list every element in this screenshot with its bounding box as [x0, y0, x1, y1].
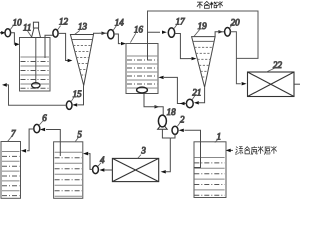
pump 14: [108, 30, 114, 39]
tank 5: [54, 142, 83, 199]
wire: pump 6 discharge to tank 7: [27, 129, 34, 151]
wire: cone 19 underflow to pump 21: [199, 87, 205, 103]
label 12: [58, 26, 61, 30]
pump 2: [172, 126, 178, 134]
svg-text:16: 16: [134, 25, 144, 35]
svg-text:20: 20: [231, 18, 241, 28]
label text 综合废水原水 (drawn strokes): [235, 146, 276, 155]
label 4: [98, 163, 101, 166]
svg-text:15: 15: [73, 89, 83, 99]
tank 1: [194, 142, 226, 198]
wire: tank 11 dip tube to pump 12: [45, 35, 53, 58]
wire: pump 15 discharge to left edge: [7, 85, 66, 105]
label text 不合格水 (drawn strokes): [197, 1, 223, 8]
svg-text:10: 10: [13, 17, 23, 27]
pump 18: [158, 115, 166, 127]
label 20: [230, 24, 233, 28]
tank 7 water level lines: [2, 152, 20, 196]
heat exchanger box 22: [248, 72, 295, 97]
tank 1 water level lines: [194, 158, 224, 196]
svg-text:7: 7: [11, 129, 16, 139]
pump 21: [186, 99, 193, 107]
label 21: [192, 96, 195, 100]
mixer motor on tank 11: [33, 22, 38, 28]
pump 20: [225, 28, 231, 37]
wire: inlet arrow into pump 10: [0, 32, 2, 34]
svg-text:4: 4: [100, 155, 105, 165]
cone 13 water surface: [72, 39, 93, 41]
label 2: [177, 121, 181, 126]
label 1: [215, 140, 218, 143]
pump 4: [93, 166, 99, 174]
cone 19 level dashes: [194, 47, 213, 77]
label 5: [75, 138, 78, 142]
wire: pump 12 to cone 13: [58, 33, 68, 60]
agitator shaft tank 11: [35, 38, 37, 84]
tank 11: [20, 38, 51, 92]
wire: box 22 outlet: [294, 83, 300, 85]
svg-text:2: 2: [180, 115, 185, 125]
cone clarifier 13: [70, 35, 93, 86]
svg-text:11: 11: [23, 23, 31, 33]
label 7: [8, 136, 12, 141]
wire: pump 14 to tank 16: [114, 34, 121, 44]
cone 13 level dashes: [73, 46, 91, 76]
impeller tank 16: [137, 87, 148, 93]
label 17: [174, 24, 177, 28]
label 18: [167, 114, 169, 116]
label 22: [266, 68, 275, 72]
svg-text:19: 19: [198, 21, 208, 31]
pump 10: [5, 29, 11, 37]
wire: pump 17 to cone 19: [175, 34, 188, 59]
wire: pump 10 to tank 11: [11, 33, 16, 45]
tank 11 water level lines: [21, 57, 50, 88]
wire: pump 18 discharge down: [162, 129, 170, 138]
label 14: [113, 26, 116, 30]
svg-text:6: 6: [42, 113, 47, 123]
wire: pump 2 discharge down: [170, 134, 175, 138]
label 15: [71, 97, 74, 101]
pump 6: [34, 124, 40, 132]
pump 12: [53, 29, 58, 37]
wire: tank 5 riser to pump 6: [46, 130, 60, 157]
svg-text:3: 3: [140, 146, 146, 156]
wire: top recycle line 不合格水: [148, 11, 259, 58]
tank 16 water level lines: [127, 56, 157, 88]
cone 19 water surface: [193, 40, 214, 42]
label 19: [194, 30, 200, 37]
impeller tank 11: [32, 83, 40, 88]
wire: pump 21 discharge to tank 16: [164, 77, 186, 103]
tank 16: [126, 44, 158, 94]
svg-text:18: 18: [167, 107, 177, 117]
pump 18 base: [158, 126, 168, 129]
filter press box 3: [112, 158, 158, 181]
svg-text:22: 22: [273, 60, 283, 70]
label 11: [28, 31, 32, 37]
wire: box 3 outlet to pump 4: [99, 168, 104, 171]
svg-text:1: 1: [217, 132, 222, 142]
tank 7: [1, 142, 21, 199]
wire: combined line to box 3: [166, 138, 170, 172]
tank 5 water level lines: [55, 152, 82, 196]
pump 15: [66, 101, 72, 109]
label 3: [138, 155, 141, 159]
svg-text:12: 12: [59, 17, 69, 27]
svg-text:5: 5: [77, 130, 82, 140]
pump 17: [168, 28, 174, 37]
wire: tank 1 dip tube to pump 2: [185, 130, 201, 167]
wire: pump 4 discharge to tank 5: [89, 154, 93, 170]
svg-text:17: 17: [176, 17, 186, 27]
label 10: [10, 25, 13, 29]
label 16: [130, 33, 135, 42]
label 6: [39, 121, 42, 125]
svg-text:13: 13: [78, 22, 88, 32]
wire: tank 16 riser to pump 17: [148, 32, 161, 60]
label 13: [75, 30, 80, 34]
svg-text:14: 14: [115, 18, 125, 28]
svg-text:21: 21: [192, 88, 201, 98]
wire: cone 13 overflow to pump 14: [94, 33, 100, 34]
wire: tank 16 drain to pump 18: [144, 94, 149, 107]
cone clarifier 19: [192, 37, 216, 88]
wire: cone 13 underflow to pump 15: [78, 86, 84, 105]
wire: pump 20 discharge to junction: [230, 32, 241, 84]
wire: raw water inlet into tank 1: [230, 149, 233, 151]
wire: cone 19 overflow to pump 20: [215, 32, 218, 37]
